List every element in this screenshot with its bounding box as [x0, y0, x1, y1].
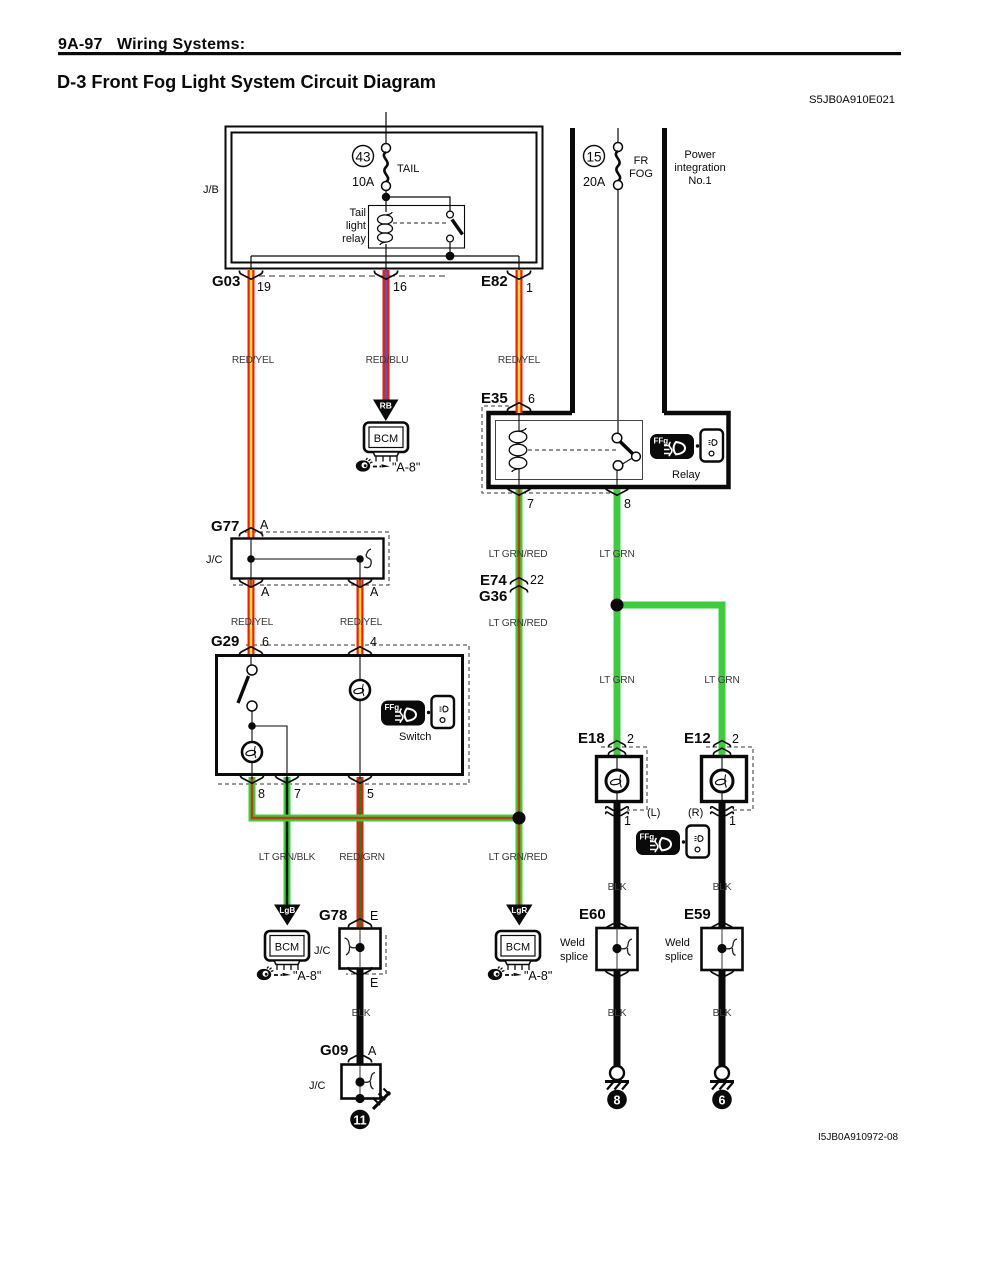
svg-text:Weld: Weld	[560, 937, 585, 949]
power integration box right thick wall	[662, 128, 667, 413]
svg-text:16: 16	[393, 280, 407, 294]
wire LT GRN branch to E12	[617, 605, 722, 757]
wire BLK G78-E to G09	[357, 969, 364, 1065]
G78 splice curl	[345, 938, 357, 955]
svg-text:RED/YEL: RED/YEL	[340, 617, 383, 628]
fog switch icon pair in G29	[381, 696, 454, 728]
tail light relay internal dashed line	[393, 222, 447, 224]
E18 dashed enclosure	[601, 747, 647, 810]
svg-text:LT GRN/BLK: LT GRN/BLK	[259, 852, 316, 863]
E12 bulb	[711, 758, 733, 801]
node: G78 splice	[355, 943, 364, 952]
ground symbol 8	[605, 1066, 629, 1090]
wire: E35 switch to pin 8	[616, 470, 618, 490]
E35 pin 7 chevron	[507, 487, 530, 496]
G29 lighting switch box	[217, 656, 463, 775]
svg-text:splice: splice	[560, 951, 588, 963]
wire: J/B internal bus	[251, 255, 519, 257]
wire BLK E18-1 to E60	[614, 802, 621, 929]
fuse 43 symbol	[353, 144, 391, 191]
node: relay output on bus	[446, 252, 455, 261]
svg-text:integration: integration	[674, 162, 725, 174]
G29 illumination lamp	[242, 742, 262, 762]
G29 pin 7 chevron	[275, 775, 298, 784]
svg-text:LgB: LgB	[279, 906, 295, 915]
node: G09 ground connection	[355, 1094, 364, 1103]
svg-text:8: 8	[258, 787, 265, 801]
E18 pin 2 chevrons	[608, 741, 625, 748]
svg-text:No.1: No.1	[688, 175, 711, 187]
svg-text:S5JB0A910E021: S5JB0A910E021	[809, 94, 895, 106]
svg-text:G09: G09	[320, 1042, 348, 1059]
svg-text:BLK: BLK	[608, 882, 627, 893]
svg-text:E: E	[370, 909, 378, 923]
svg-text:2: 2	[627, 732, 634, 746]
G77 J/C box	[232, 539, 384, 579]
G09 J/C box	[342, 1065, 381, 1099]
G29 switch contact top	[250, 657, 252, 666]
LgB page reference triangle	[274, 905, 301, 926]
svg-text:Power: Power	[684, 149, 716, 161]
wire: stub above fuse 43	[385, 112, 387, 144]
BCM below RB	[356, 423, 421, 475]
connector 16 chevron	[374, 271, 397, 280]
wire BLK E59 to ground	[719, 970, 726, 1066]
G78 J/C box	[340, 929, 381, 969]
svg-text:relay: relay	[342, 233, 366, 245]
G29 pin 4 chevron	[348, 647, 371, 656]
svg-text:FOG: FOG	[629, 168, 653, 180]
G29 switch contact bottom	[247, 701, 257, 711]
G77 splice curl	[364, 549, 371, 568]
svg-text:G78: G78	[319, 907, 347, 924]
wire RED/YEL G77-A to G29-4	[357, 580, 364, 656]
RB page reference triangle	[373, 400, 399, 422]
connector E82 pin 1 chevron	[507, 271, 530, 280]
wire: junction to relay switch	[386, 197, 450, 211]
wire LT GRN/RED branch to G29 pin 8	[252, 777, 519, 818]
svg-text:LT GRN: LT GRN	[599, 675, 634, 686]
wire LT GRN/BLK G29-7 to LgB	[284, 777, 291, 906]
E35 relay dashed enclosure	[482, 406, 622, 493]
E12 pin 1 strain relief	[711, 807, 734, 816]
svg-text:(R): (R)	[688, 807, 703, 819]
G77 pin A chevron	[239, 528, 262, 537]
wire RED/YEL E82-1 to E35-6	[516, 270, 523, 413]
svg-text:G03: G03	[212, 273, 240, 290]
svg-text:E60: E60	[579, 906, 606, 923]
svg-text:Tail: Tail	[349, 207, 366, 219]
svg-text:LT GRN/RED: LT GRN/RED	[489, 549, 548, 560]
svg-text:G77: G77	[211, 518, 239, 535]
power integration box left thick wall	[570, 128, 575, 413]
E59 weld splice box	[702, 928, 743, 970]
G29 pin 8 chevron	[240, 775, 263, 784]
E18 pin 1 strain relief	[606, 807, 629, 816]
E59 exit chevron	[710, 969, 733, 978]
svg-text:TAIL: TAIL	[397, 163, 419, 175]
svg-text:1: 1	[526, 281, 533, 295]
svg-text:LgR: LgR	[511, 906, 527, 915]
ground 11 badge	[350, 1110, 370, 1130]
svg-text:I5JB0A910972-08: I5JB0A910972-08	[818, 1132, 899, 1143]
E12 pin 2 chevrons	[713, 741, 730, 748]
svg-text:7: 7	[294, 787, 301, 801]
svg-text:A: A	[368, 1044, 377, 1058]
node: G09 splice	[355, 1077, 364, 1086]
svg-text:7: 7	[527, 497, 534, 511]
wire: bus down to E82 pin 1	[518, 256, 520, 278]
svg-text:RED/GRN: RED/GRN	[339, 852, 385, 863]
svg-text:Wiring Systems:: Wiring Systems:	[117, 36, 245, 53]
svg-text:E59: E59	[684, 906, 711, 923]
E35 fog relay thick box	[489, 413, 729, 487]
wire LT GRN E35-8 to E18	[614, 489, 621, 757]
G77 internal bus	[250, 538, 252, 586]
ground symbol 6	[710, 1066, 734, 1090]
E35 pin 6 chevron	[507, 403, 530, 412]
svg-text:10A: 10A	[352, 175, 375, 189]
svg-text:E82: E82	[481, 273, 508, 290]
svg-text:RED/YEL: RED/YEL	[232, 355, 275, 366]
E60 exit chevron	[605, 969, 628, 978]
E60 weld splice box	[597, 928, 638, 970]
svg-text:8: 8	[624, 497, 631, 511]
svg-text:RED/BLU: RED/BLU	[366, 355, 409, 366]
E18 left fog lamp box	[597, 757, 642, 802]
fog relay icon pair in E35	[650, 430, 723, 462]
svg-text:Relay: Relay	[672, 469, 701, 481]
svg-text:6: 6	[719, 1094, 726, 1108]
svg-text:E12: E12	[684, 730, 711, 747]
svg-text:BLK: BLK	[713, 1008, 732, 1019]
tail light relay coil	[378, 212, 393, 245]
wire RED/GRN G29-5 to G78	[357, 777, 364, 928]
svg-text:A: A	[261, 585, 270, 599]
G09 pin A chevron	[348, 1054, 371, 1063]
G29 indicator lamp	[350, 680, 370, 700]
svg-text:E18: E18	[578, 730, 605, 747]
G29 pin 5 chevron	[348, 775, 371, 784]
svg-text:A: A	[370, 585, 379, 599]
G29 switch dashed enclosure	[215, 645, 469, 784]
wire RED/YEL G03-19 to G77	[248, 270, 255, 539]
wire: relay switch to bus	[449, 243, 451, 258]
node: fuse 43 output junction	[382, 193, 390, 201]
wire: stub above fuse 15	[617, 128, 619, 143]
wire LT GRN/RED E35-7 to LgR with branch	[516, 489, 523, 906]
svg-text:BLK: BLK	[608, 1008, 627, 1019]
wire BLK E12-1 to E59	[719, 802, 726, 929]
wire: fuse 43 output to coil	[385, 190, 387, 212]
svg-text:A: A	[260, 518, 269, 532]
G78 exit E chevron	[348, 967, 371, 976]
svg-text:LT GRN/RED: LT GRN/RED	[489, 618, 548, 629]
G78 pin E chevron	[348, 919, 371, 928]
E35 relay internal dashed line	[528, 449, 618, 451]
node: G77 right splice	[356, 555, 364, 563]
connector G03 pin 19 chevron	[239, 271, 262, 280]
tail light relay box	[369, 206, 465, 249]
G78 internal wire	[359, 929, 361, 968]
svg-text:5: 5	[367, 787, 374, 801]
svg-text:G29: G29	[211, 633, 239, 650]
svg-text:G36: G36	[479, 588, 507, 605]
ground 6 badge	[712, 1090, 732, 1110]
wire BLK E60 to ground	[614, 970, 621, 1066]
G03 to 16 connector dashed link	[259, 275, 449, 277]
svg-text:9A-97: 9A-97	[58, 36, 103, 53]
wire RED/BLU 16 to RB	[383, 270, 390, 401]
svg-text:E74: E74	[480, 572, 507, 589]
svg-text:RED/YEL: RED/YEL	[498, 355, 541, 366]
svg-text:8: 8	[614, 1094, 621, 1108]
svg-text:RB: RB	[380, 401, 392, 411]
svg-text:19: 19	[257, 280, 271, 294]
svg-text:(L): (L)	[647, 807, 660, 819]
G29 switch lever	[238, 676, 249, 703]
wire: junction to pin 7	[252, 726, 287, 779]
svg-text:11: 11	[353, 1114, 366, 1128]
LgR page reference triangle	[506, 905, 533, 926]
wire RED/YEL G77-A to G29-6	[248, 580, 255, 656]
svg-text:Switch: Switch	[399, 731, 431, 743]
wire: bus down to G03 pin 19	[250, 256, 252, 278]
svg-text:LT GRN: LT GRN	[599, 549, 634, 560]
BCM below LgR	[488, 931, 553, 983]
fog lamp icon pair between E18 and E12	[636, 826, 709, 858]
tail light relay switch	[447, 211, 463, 242]
wire: junction to lamp	[251, 726, 253, 743]
svg-text:FR: FR	[634, 155, 649, 167]
G77 J/C dashed enclosure	[233, 532, 389, 585]
node: G77 left splice	[247, 555, 255, 563]
ground 8 badge	[607, 1090, 627, 1110]
wire: switch to junction	[251, 711, 253, 729]
svg-text:4: 4	[370, 635, 377, 649]
G09 splice curl	[364, 1073, 376, 1090]
G77 exit A chevron left	[239, 579, 262, 588]
BCM below LgB	[257, 931, 322, 983]
wire: fuse 15 to E35 relay switch	[617, 189, 619, 434]
svg-text:LT GRN: LT GRN	[704, 675, 739, 686]
svg-text:1: 1	[624, 814, 631, 828]
svg-text:Weld: Weld	[665, 937, 690, 949]
node: fog lamp feed junction	[611, 599, 624, 612]
svg-text:BLK: BLK	[713, 882, 732, 893]
G77 exit A chevron right	[348, 579, 371, 588]
G09 internal wire	[359, 1065, 361, 1098]
wire: lamp to pin 8	[251, 762, 253, 779]
svg-text:LT GRN/RED: LT GRN/RED	[489, 852, 548, 863]
E59 entry chevron	[710, 922, 733, 931]
svg-text:J/C: J/C	[314, 945, 331, 957]
E18 bulb	[606, 758, 628, 801]
svg-text:E: E	[370, 976, 378, 990]
header rule	[58, 52, 901, 55]
J/B junction block box (double border)	[226, 127, 543, 269]
node: fog feed junction	[513, 812, 526, 825]
E12 right fog lamp box	[702, 757, 747, 802]
fuse 15 symbol	[584, 143, 623, 190]
svg-text:22: 22	[530, 573, 544, 587]
svg-text:J/C: J/C	[206, 554, 223, 566]
E74/G36 inline connector chevrons	[510, 578, 527, 585]
G29 pin 6 chevron	[239, 647, 262, 656]
svg-text:J/C: J/C	[309, 1080, 326, 1092]
svg-text:6: 6	[528, 392, 535, 406]
G09 body ground symbol	[373, 1089, 390, 1110]
svg-text:E35: E35	[481, 390, 508, 407]
svg-text:15: 15	[586, 150, 601, 165]
svg-text:J/B: J/B	[203, 184, 219, 196]
svg-text:20A: 20A	[583, 175, 606, 189]
G78 J/C dashed enclosure	[346, 935, 386, 974]
svg-text:1: 1	[729, 814, 736, 828]
svg-text:light: light	[346, 220, 366, 232]
E35 pin 8 chevron	[605, 487, 628, 496]
E35 relay inner box	[496, 421, 643, 480]
svg-text:BLK: BLK	[352, 1008, 371, 1019]
svg-text:D-3 Front Fog Light System Cir: D-3 Front Fog Light System Circuit Diagr…	[57, 72, 436, 92]
svg-text:43: 43	[355, 150, 370, 165]
node: G29 internal junction	[248, 722, 256, 730]
E60 entry chevron	[605, 922, 628, 931]
wire: lamp to pin 5	[359, 700, 361, 779]
E35 relay coil	[509, 413, 527, 490]
wire: pin 4 to indicator lamp	[359, 657, 361, 680]
svg-text:6: 6	[262, 635, 269, 649]
E12 dashed enclosure	[706, 747, 753, 810]
E35 relay switch	[612, 433, 640, 470]
svg-text:RED/YEL: RED/YEL	[231, 617, 274, 628]
svg-text:splice: splice	[665, 951, 693, 963]
svg-text:2: 2	[732, 732, 739, 746]
wire: coil down to pin 16	[385, 244, 387, 278]
